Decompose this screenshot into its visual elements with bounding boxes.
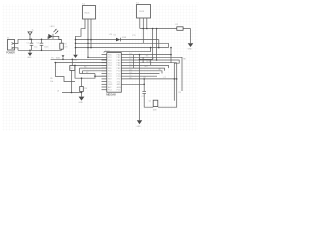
LED D1	[48, 26, 58, 39]
svg-text:PC0: PC0	[117, 71, 121, 73]
wire bus B right drop	[168, 43, 170, 47]
capacitor C1	[26, 39, 37, 50]
wire IC1 pins	[140, 18, 147, 29]
svg-text:R8: R8	[183, 58, 185, 60]
voltage regulator IC2	[82, 3, 96, 19]
svg-text:GND: GND	[188, 49, 193, 51]
svg-text:18: 18	[129, 64, 131, 66]
svg-text:PD4: PD4	[108, 65, 112, 67]
svg-text:R6: R6	[84, 66, 86, 68]
svg-text:XT1: XT1	[117, 79, 120, 81]
svg-text:23: 23	[129, 69, 131, 71]
ground mid-left	[73, 55, 78, 62]
svg-text:C7: C7	[142, 96, 144, 98]
svg-text:GND: GND	[136, 126, 141, 128]
svg-text:C7: C7	[163, 77, 165, 79]
svg-text:DS18: DS18	[139, 11, 144, 13]
svg-text:MO: MO	[145, 66, 149, 68]
svg-text:POWER: POWER	[6, 50, 14, 54]
wire pin r4	[121, 62, 176, 64]
wire pin r11 xtal1	[121, 83, 144, 85]
wire drop to mesh x152.6	[140, 29, 153, 60]
svg-text:LED1: LED1	[50, 26, 55, 28]
svg-text:GND: GND	[79, 102, 84, 104]
svg-text:PC1: PC1	[117, 73, 121, 75]
svg-text:GND: GND	[27, 57, 32, 59]
ground under R4	[79, 92, 85, 105]
wire vertical x150.7	[150, 60, 152, 65]
svg-text:D2: D2	[114, 35, 116, 37]
svg-text:AVC: AVC	[108, 86, 112, 89]
wire pin r1 to gnd drop	[121, 54, 171, 56]
wire vertical x143.1	[142, 57, 144, 62]
svg-text:PC3: PC3	[117, 76, 121, 78]
wire pin r8	[121, 73, 159, 75]
svg-text:100n: 100n	[44, 47, 48, 49]
wire IC2 pin3	[90, 19, 92, 48]
microcontroller IC3	[106, 50, 121, 96]
svg-text:GND: GND	[73, 60, 78, 62]
svg-text:IC2: IC2	[82, 3, 85, 5]
wire IC2 pin1 route	[76, 19, 86, 43]
IC3 left pin stubs	[88, 55, 107, 90]
resistor R4	[80, 78, 87, 91]
svg-text:78L05: 78L05	[84, 12, 89, 14]
wire bus A continues	[120, 39, 159, 41]
svg-text:25: 25	[129, 75, 131, 77]
svg-text:PD1: PD1	[108, 57, 112, 59]
svg-text:X1: X1	[7, 38, 9, 40]
svg-text:VCC: VCC	[108, 81, 113, 83]
svg-text:PC4: PC4	[108, 90, 112, 92]
wire pin r7	[121, 71, 162, 74]
wire pin r3	[121, 60, 179, 101]
svg-text:PD2: PD2	[108, 60, 112, 62]
wire connector pin forks	[15, 39, 19, 50]
svg-text:PD7: PD7	[108, 73, 112, 75]
resistor R1	[60, 43, 68, 50]
svg-text:24: 24	[129, 72, 131, 74]
svg-text:15: 15	[129, 56, 131, 58]
svg-text:PB2: PB2	[117, 60, 121, 62]
svg-text:PB0: PB0	[117, 54, 121, 56]
svg-text:14: 14	[129, 53, 131, 55]
svg-text:16: 16	[129, 59, 131, 61]
wire bottom left stub	[62, 92, 82, 94]
svg-text:4148: 4148	[122, 37, 126, 39]
wire pin r5	[121, 65, 168, 68]
capacitor C2	[37, 39, 49, 50]
crystal Q1 loop	[142, 63, 176, 112]
diode D2	[114, 35, 126, 42]
svg-text:PD3: PD3	[108, 63, 112, 65]
svg-text:IC1: IC1	[136, 3, 139, 5]
svg-text:AGN: AGN	[117, 86, 122, 89]
svg-text:C1: C1	[26, 42, 28, 44]
wire bottom rail	[18, 49, 62, 51]
wire IC2 pin2 to overline	[87, 19, 89, 57]
wire LED to R1	[53, 36, 62, 43]
text pin numbers column	[129, 53, 131, 79]
svg-text:R9: R9	[178, 92, 180, 94]
wire top-right bus	[140, 28, 191, 30]
svg-text:PB5: PB5	[117, 68, 121, 70]
wire bus A right drop	[158, 40, 160, 48]
svg-text:17: 17	[129, 61, 131, 63]
svg-text:S1: S1	[71, 68, 73, 70]
wire right drop x171	[170, 48, 172, 63]
svg-text:R1: R1	[64, 44, 66, 46]
sensor IC1	[136, 3, 151, 19]
connector X1	[6, 38, 14, 55]
svg-text:PB3: PB3	[117, 63, 121, 65]
svg-text:MEGA8: MEGA8	[106, 92, 116, 96]
wire pin r9	[121, 75, 157, 77]
svg-text:PC5: PC5	[117, 90, 121, 92]
svg-text:470: 470	[64, 46, 67, 48]
IC3 right pin wires	[121, 55, 182, 101]
wire bus A +5V	[76, 39, 117, 41]
wire y47.6 link	[76, 47, 169, 49]
svg-text:IC3: IC3	[107, 50, 110, 52]
IC3 pin name text columns	[108, 54, 121, 91]
wire IC1 mid pin drop	[142, 29, 144, 44]
svg-text:PD5: PD5	[108, 68, 112, 70]
svg-text:R5: R5	[50, 78, 52, 80]
svg-text:PC2: PC2	[108, 76, 112, 78]
wire top rail	[18, 38, 62, 40]
junction dots	[29, 28, 177, 94]
supply arrow V+	[28, 30, 35, 40]
svg-text:GND: GND	[108, 84, 113, 86]
supply arrow on net line	[62, 55, 65, 59]
svg-text:10k: 10k	[50, 81, 53, 83]
wire vertical x133.5	[133, 55, 135, 69]
svg-text:XT2: XT2	[117, 81, 120, 83]
svg-text:R4: R4	[85, 88, 87, 90]
svg-text:10u: 10u	[34, 47, 37, 49]
svg-text:R2: R2	[176, 24, 178, 26]
svg-text:C2: C2	[37, 42, 39, 44]
wire centre ground drop	[136, 55, 144, 129]
svg-text:PD0: PD0	[108, 54, 112, 56]
wire pin r2	[121, 57, 182, 91]
svg-text:16M: 16M	[153, 109, 157, 111]
button S1	[70, 59, 75, 92]
wire drop to mesh x156.6	[156, 29, 158, 61]
svg-text:PB4: PB4	[117, 65, 121, 67]
wire staircase	[56, 63, 76, 82]
ground top-right	[188, 29, 194, 51]
ground under capacitors	[27, 50, 32, 59]
wire left mesh	[75, 65, 107, 78]
wire pin r6	[121, 68, 164, 71]
svg-text:Q1: Q1	[149, 101, 152, 103]
svg-text:26: 26	[129, 78, 131, 80]
svg-text:PB1: PB1	[117, 57, 121, 59]
wire bus B	[76, 42, 169, 44]
wire long net line 2	[54, 62, 106, 64]
svg-text:R7: R7	[86, 72, 88, 74]
svg-text:PD6: PD6	[108, 71, 112, 73]
svg-text:19: 19	[129, 67, 131, 69]
resistor R2 on bus	[176, 24, 184, 30]
wire long net line 1	[51, 58, 107, 60]
wire pin r10	[121, 78, 176, 80]
wire pin1 drop to ground	[75, 43, 77, 55]
svg-text:XTL: XTL	[132, 35, 135, 37]
